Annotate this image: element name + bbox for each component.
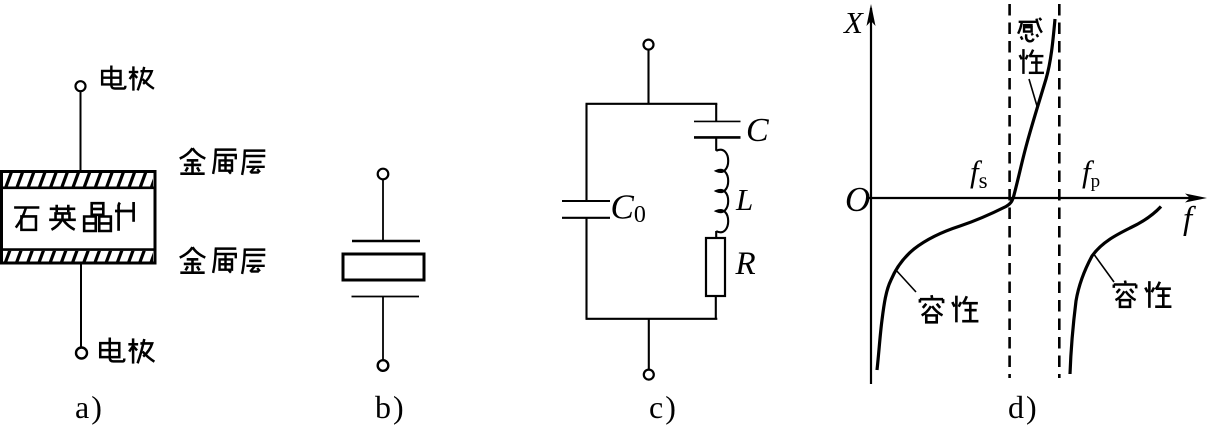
- svg-text:O: O: [845, 180, 870, 219]
- svg-text:fp: fp: [1082, 154, 1100, 192]
- svg-text:X: X: [842, 5, 864, 40]
- svg-text:C0: C0: [611, 188, 646, 229]
- svg-text:d): d): [1008, 389, 1039, 425]
- svg-text:f: f: [1183, 201, 1196, 237]
- svg-text:C: C: [746, 112, 769, 149]
- svg-text:R: R: [735, 246, 756, 282]
- svg-text:fs: fs: [970, 154, 988, 193]
- svg-text:L: L: [735, 182, 753, 217]
- svg-text:a): a): [75, 389, 104, 425]
- svg-text:c): c): [649, 389, 678, 425]
- svg-text:b): b): [375, 389, 406, 425]
